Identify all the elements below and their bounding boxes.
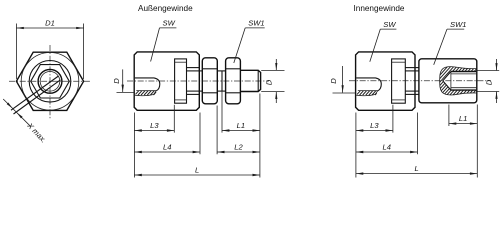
L dimension (right) xyxy=(356,164,477,175)
collar / washer xyxy=(175,59,187,103)
svg-text:Außengewinde: Außengewinde xyxy=(138,4,193,13)
svg-text:D: D xyxy=(329,78,338,84)
D1 dimension (top of front view) xyxy=(16,18,83,79)
SW1 leader (middle) xyxy=(234,19,265,63)
chamfer circle of outer hex xyxy=(21,53,79,111)
collar / washer right xyxy=(392,59,406,103)
slot lines through bore (X max feature) xyxy=(11,76,59,110)
thread minor circle xyxy=(40,72,60,92)
svg-text:L3: L3 xyxy=(370,121,379,130)
svg-text:SW: SW xyxy=(383,20,396,29)
SW1 leader (right) xyxy=(434,20,467,65)
SW leader (middle) xyxy=(151,19,177,62)
neck cylinder lines xyxy=(187,68,200,95)
coupling nut with internal thread (SW1) xyxy=(419,59,477,103)
centerlines of front view xyxy=(9,45,91,119)
svg-text:SW: SW xyxy=(163,19,176,28)
svg-text:SW1: SW1 xyxy=(450,20,466,29)
threaded bore circle D xyxy=(38,69,62,93)
svg-text:L4: L4 xyxy=(382,142,390,151)
L3 dimension (right) xyxy=(356,121,393,132)
centerline middle view xyxy=(127,80,269,82)
D dimension right (thread) xyxy=(261,59,284,103)
internal thread broken-out section xyxy=(437,65,478,97)
svg-text:L4: L4 xyxy=(163,142,171,151)
svg-text:D1: D1 xyxy=(45,18,55,27)
threaded stud end xyxy=(240,70,260,91)
centerline right view xyxy=(349,80,491,82)
lock nut (SW1) xyxy=(226,58,241,104)
extension lines bottom (right) xyxy=(356,105,477,178)
neck lines right xyxy=(405,68,419,95)
SW leader (right) xyxy=(370,20,397,62)
L2 dimension xyxy=(217,142,260,153)
svg-text:D: D xyxy=(485,79,494,85)
break line wavy xyxy=(440,67,477,95)
hex body (SW) side view xyxy=(134,52,199,110)
svg-text:L1: L1 xyxy=(459,114,467,123)
stem between hex1 and nut xyxy=(217,71,225,91)
L1 dimension (right) xyxy=(449,114,477,125)
svg-text:L: L xyxy=(195,165,199,174)
extension lines bottom (middle) xyxy=(134,71,260,178)
D dimension left (middle bore) xyxy=(112,69,134,92)
L4 dimension (right) xyxy=(356,142,418,153)
svg-text:L: L xyxy=(414,164,418,173)
svg-text:Innengewinde: Innengewinde xyxy=(354,4,405,13)
svg-text:SW1: SW1 xyxy=(248,19,264,28)
L3 dimension xyxy=(134,121,174,132)
D dimension right (internal thread) xyxy=(477,59,499,103)
svg-text:D: D xyxy=(112,78,121,84)
D dimension left (right view) xyxy=(329,66,356,93)
svg-text:D: D xyxy=(265,79,274,85)
X max dimension leader xyxy=(3,99,30,126)
stem to hex flats xyxy=(187,71,203,91)
cylindrical neck circle xyxy=(29,61,71,103)
svg-text:L1: L1 xyxy=(237,121,245,130)
svg-text:L3: L3 xyxy=(150,121,159,130)
svg-text:L2: L2 xyxy=(234,142,243,151)
broken-out section: threaded bore in body xyxy=(135,78,160,96)
L1 dimension (middle) xyxy=(222,121,260,132)
broken-out section: threaded bore in body (right) xyxy=(356,78,381,96)
hex body (SW) right view xyxy=(356,52,415,110)
outer hexagon (body SW) front view xyxy=(16,52,83,110)
hex flats piece (hex1) xyxy=(202,58,217,104)
inner hexagon (nut SW1) front view xyxy=(31,65,70,98)
L4 dimension xyxy=(134,142,200,153)
drill cone xyxy=(443,72,451,81)
L dimension (middle) xyxy=(134,165,260,176)
